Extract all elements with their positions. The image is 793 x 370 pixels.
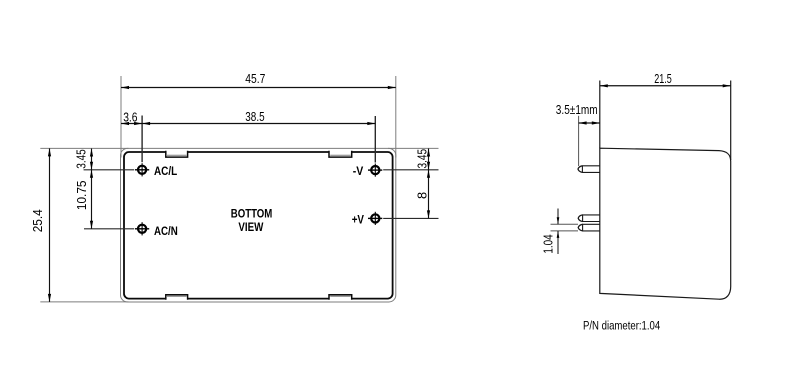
side view lower pin (AC/N row) xyxy=(583,224,600,231)
dim 45.7 extension lines xyxy=(120,76,122,158)
side view top pin xyxy=(582,166,599,173)
dim 3.45 left: pin ext line xyxy=(84,169,135,171)
dim 45.7 line xyxy=(121,87,396,89)
dim 25.4 line xyxy=(49,148,51,302)
pin AC/L xyxy=(135,163,149,176)
side view lower pin (+V row) xyxy=(583,215,600,222)
svg-text:3.6: 3.6 xyxy=(123,109,137,124)
notch top-left xyxy=(166,150,188,157)
module inner case outline (bottom view) xyxy=(124,152,393,299)
pin +V xyxy=(368,212,382,225)
dim 3.5±1mm line xyxy=(579,122,600,124)
dim 3.45 left line xyxy=(91,149,93,170)
dim 25.4 extension lines xyxy=(40,147,128,149)
dim 21.5 line xyxy=(600,85,731,87)
svg-text:25.4: 25.4 xyxy=(30,209,45,232)
svg-text:AC/L: AC/L xyxy=(154,164,178,178)
svg-text:45.7: 45.7 xyxy=(245,71,265,86)
svg-text:-V: -V xyxy=(353,164,364,178)
svg-text:VIEW: VIEW xyxy=(238,220,263,234)
svg-text:38.5: 38.5 xyxy=(245,109,264,124)
module outer case outline (bottom view) xyxy=(121,148,396,302)
svg-text:BOTTOM: BOTTOM xyxy=(231,206,272,220)
dim 10.75 line xyxy=(91,170,93,229)
dim 3.6 / 38.5 pin extension lines xyxy=(141,116,143,163)
notch top-right xyxy=(329,150,352,157)
svg-text:1.04: 1.04 xyxy=(541,234,556,253)
dim 10.75: pin ext line xyxy=(84,228,134,230)
dim 8: pin ext line xyxy=(383,217,438,219)
dim 1.04 ext lines xyxy=(551,223,579,225)
svg-text:3.45: 3.45 xyxy=(414,149,429,169)
dim 3.45 right: ext lines xyxy=(388,147,439,149)
pin -V xyxy=(368,164,382,177)
notch bottom-right xyxy=(329,294,352,300)
svg-text:3.5±1mm: 3.5±1mm xyxy=(556,102,598,117)
side view: left body edge / extension up xyxy=(599,81,601,149)
dim 1.04 line (outside arrows) xyxy=(557,209,559,225)
svg-text:+V: +V xyxy=(352,213,365,227)
side view body xyxy=(600,148,731,299)
pin AC/N xyxy=(135,222,149,235)
dim 3.5±1mm ext line xyxy=(578,116,580,166)
side view: right extension up xyxy=(730,81,732,161)
svg-text:10.75: 10.75 xyxy=(74,181,89,211)
svg-text:P/N diameter:1.04: P/N diameter:1.04 xyxy=(583,319,660,333)
svg-text:3.45: 3.45 xyxy=(73,149,88,169)
svg-text:21.5: 21.5 xyxy=(654,71,672,86)
dim 3.45 right line xyxy=(428,149,430,170)
svg-text:AC/N: AC/N xyxy=(154,224,178,238)
dim 3.6 / 38.5 line xyxy=(121,123,375,125)
notch bottom-left xyxy=(166,294,188,300)
dim 8 line xyxy=(428,170,430,219)
svg-text:8: 8 xyxy=(415,192,430,199)
